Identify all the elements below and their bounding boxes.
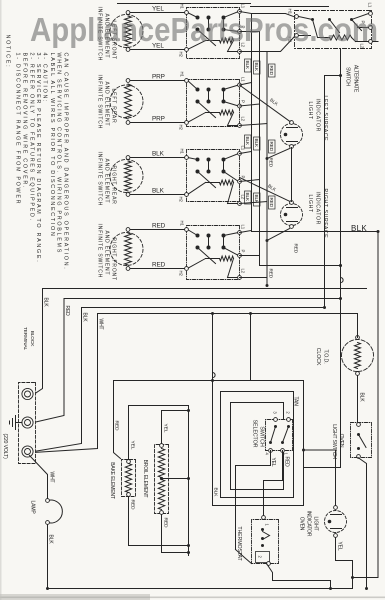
label wire BLK (R1 bottom) xyxy=(213,488,219,498)
wire lamp return xyxy=(46,525,49,591)
wire trunk clock (x313) xyxy=(98,313,358,315)
svg-text:RED: RED xyxy=(269,158,274,168)
label wire BLK diagonal light1 xyxy=(269,97,280,107)
wire bus C (y61) xyxy=(325,74,343,308)
svg-text:CLOCK: CLOCK xyxy=(315,348,321,366)
label OVEN LIGHT SWITCH xyxy=(331,424,344,459)
svg-text:BROIL ELEMENT: BROIL ELEMENT xyxy=(142,460,148,498)
oven light switch box xyxy=(351,423,372,458)
alternate switch terminal P xyxy=(361,21,373,30)
infinite switch S4 box xyxy=(187,226,240,280)
svg-text:WHT: WHT xyxy=(98,319,104,330)
svg-text:BLK: BLK xyxy=(254,139,259,148)
wire WHT rail to terminal xyxy=(34,314,98,453)
svg-text:AND ELEMENT: AND ELEMENT xyxy=(104,82,110,127)
wire left edge upper xyxy=(251,6,329,8)
svg-text:BEFORE REMOVING WIRE COVER.: BEFORE REMOVING WIRE COVER. xyxy=(22,53,28,190)
wire routing rectangle R1 xyxy=(213,381,304,506)
svg-text:LIGHT SWITCH: LIGHT SWITCH xyxy=(331,424,337,459)
surface element E1 burner outline xyxy=(110,15,143,48)
left surface indicator light terminals xyxy=(290,121,294,149)
infinite switch S3 terminal L1 xyxy=(238,146,246,156)
wire H2 S3 to element xyxy=(130,194,185,196)
wire H2 S2 to element xyxy=(130,122,185,124)
svg-text:WHT: WHT xyxy=(49,472,55,483)
svg-text:RED: RED xyxy=(64,306,70,317)
svg-text:RED: RED xyxy=(269,142,274,152)
svg-text:INDICATOR: INDICATOR xyxy=(306,511,312,537)
svg-text:PRP: PRP xyxy=(152,74,165,81)
thermostat terminal 1 xyxy=(262,516,270,527)
svg-text:H2: H2 xyxy=(179,52,184,58)
label LEFT SURFACE INDICATOR LIGHT xyxy=(307,96,328,142)
infinite switch S1 terminal L1 xyxy=(238,4,246,14)
infinite switch S2 contacts xyxy=(188,81,239,126)
svg-text:YEL: YEL xyxy=(163,424,169,433)
svg-text:H1: H1 xyxy=(180,72,185,78)
wire run L2 chain (y118.5) xyxy=(240,52,268,278)
svg-text:RED: RED xyxy=(114,421,120,431)
label wire BLK (lamp) xyxy=(48,535,54,545)
infinite switch S3 terminal P xyxy=(238,176,246,184)
infinite switch S1 contacts xyxy=(188,12,239,52)
label wire BLK xyxy=(245,59,252,72)
bake element terminals xyxy=(127,460,131,497)
svg-text:L2: L2 xyxy=(241,269,246,274)
wire right-edge trunk xyxy=(48,588,353,590)
svg-text:RIGHT SURFACE: RIGHT SURFACE xyxy=(322,189,328,239)
wire thermostat right diagonal xyxy=(267,564,273,581)
svg-text:H2: H2 xyxy=(179,197,184,203)
infinite switch S2 box xyxy=(187,80,240,127)
svg-text:P: P xyxy=(241,100,246,103)
infinite switch S3 box xyxy=(187,150,240,202)
wire bake right xyxy=(129,497,191,548)
wire routing rectangle R2 xyxy=(221,392,294,498)
alternate switch box xyxy=(295,11,372,49)
wire trunk A (x292) xyxy=(43,288,367,290)
svg-text:2- REFER ONLY TO FEATURES EQUI: 2- REFER ONLY TO FEATURES EQUIPPED. xyxy=(29,53,35,222)
label wire RED (bake) xyxy=(130,500,136,510)
wire L1 chain riser to L2 bus xyxy=(252,230,380,233)
infinite switch S4 terminal H2 xyxy=(179,267,189,277)
svg-text:YEL: YEL xyxy=(130,441,136,450)
wire light2 feed diagonal xyxy=(240,178,291,202)
surface element E3 burner outline xyxy=(110,160,143,193)
bake element box xyxy=(122,460,136,497)
svg-text:BLK: BLK xyxy=(245,61,250,70)
svg-text:H1: H1 xyxy=(180,221,185,227)
infinite switch S1 terminal L2 xyxy=(238,43,246,54)
infinite switch S1 terminal H2 xyxy=(179,48,189,58)
svg-text:BLK: BLK xyxy=(351,224,367,233)
wire S1 L1 to alternate H1 xyxy=(252,14,294,17)
terminal block terminal L1 xyxy=(22,388,33,399)
svg-text:L2: L2 xyxy=(241,117,246,122)
label wire YEL (bake) xyxy=(130,441,136,450)
surface element E4 burner outline xyxy=(110,233,143,266)
alternate switch resistor xyxy=(330,35,352,40)
svg-text:TAN: TAN xyxy=(293,397,299,407)
infinite switch S3 contacts xyxy=(188,154,239,204)
svg-text:THERMOSTAT: THERMOSTAT xyxy=(236,526,242,561)
infinite switch S4 terminal H1 xyxy=(180,221,189,232)
svg-text:LEFT SURFACE: LEFT SURFACE xyxy=(322,96,328,142)
label INFINITE SWITCH AND ELEMENT LEFT REAR xyxy=(97,75,117,130)
infinite switch S4 terminal P xyxy=(238,250,246,258)
wire H2 S1 to element xyxy=(130,49,185,51)
label wire YEL (broil) xyxy=(163,424,169,433)
ground symbol xyxy=(10,416,23,430)
infinite switch S3 terminal H1 xyxy=(180,149,189,160)
label wire RED xyxy=(294,244,299,254)
svg-text:INFINITE SWITCH: INFINITE SWITCH xyxy=(97,224,103,279)
svg-text:AND ELEMENT: AND ELEMENT xyxy=(104,159,110,204)
wire bake feeder (y272) xyxy=(114,379,215,459)
wire terminal to lamp xyxy=(30,456,48,500)
wire BLK rail lower xyxy=(34,289,43,395)
label wire RED xyxy=(269,196,276,209)
label LAMP xyxy=(30,501,36,515)
svg-text:BLK: BLK xyxy=(152,188,165,195)
svg-text:CAN CAUSE IMPROPER AND DANGERO: CAN CAUSE IMPROPER AND DANGEROUS OPERATI… xyxy=(63,53,69,271)
svg-text:RED: RED xyxy=(152,262,166,269)
svg-text:SWITCH: SWITCH xyxy=(259,426,265,447)
oven indicator light xyxy=(325,511,347,533)
wire H1 S3 to element xyxy=(130,157,185,159)
svg-text:H2: H2 xyxy=(179,125,184,131)
wire oven indicator left xyxy=(302,449,336,506)
svg-text:LABEL ALL WIRES PRIOR TO DISCO: LABEL ALL WIRES PRIOR TO DISCONNECTION xyxy=(49,53,55,238)
wire left edge segment xyxy=(118,3,251,5)
svg-text:(220 VOLT): (220 VOLT) xyxy=(2,434,8,460)
surface element E2 burner outline xyxy=(110,85,143,118)
lamp xyxy=(48,500,63,523)
label wire BLK xyxy=(254,193,261,206)
infinite switch S4 contacts xyxy=(188,230,239,278)
wire routing rectangle R3 xyxy=(231,403,284,490)
label wire RED (light1 return) xyxy=(269,158,274,168)
wire light2 return diagonal xyxy=(266,229,290,243)
label RIGHT SURFACE INDICATOR LIGHT xyxy=(307,189,328,239)
svg-text:L1: L1 xyxy=(368,3,373,8)
alternate switch terminal L1 xyxy=(368,3,373,16)
alternate switch terminal H2 xyxy=(288,34,299,43)
svg-text:RED: RED xyxy=(130,500,136,510)
svg-text:BLK: BLK xyxy=(245,193,250,202)
infinite switch S4 terminal L1 xyxy=(238,225,246,235)
svg-text:LIGHT: LIGHT xyxy=(307,195,313,214)
right surface indicator light xyxy=(281,204,303,226)
svg-text:RED: RED xyxy=(163,518,169,528)
label wire BLK (rail) xyxy=(43,298,49,308)
label wire BLK (clock) xyxy=(359,393,365,403)
wire between lights xyxy=(291,148,293,202)
alternate switch contacts xyxy=(299,14,369,42)
wire L2 chain to trunk A xyxy=(266,278,269,288)
selector switch contacts xyxy=(269,425,290,444)
wire broil right xyxy=(162,515,191,555)
label wire TAN xyxy=(293,397,299,407)
terminal block box xyxy=(19,383,36,464)
label SELECTOR SWITCH xyxy=(252,420,265,448)
label TERMINAL BLOCK xyxy=(22,327,35,351)
svg-text:T.O.D.: T.O.D. xyxy=(323,349,329,363)
infinite switch S3 terminal H2 xyxy=(179,193,189,203)
label wire RED xyxy=(269,64,276,77)
label wire BLK diagonal light2 xyxy=(267,183,278,193)
surface element E3 resistor xyxy=(125,156,132,197)
svg-text:L1: L1 xyxy=(241,225,246,230)
infinite switch S1 terminal H1 xyxy=(180,4,189,15)
svg-text:BLK: BLK xyxy=(245,137,250,146)
label BROIL ELEMENT xyxy=(142,460,148,498)
terminal block terminal N xyxy=(22,417,33,428)
thermostat terminal 2 xyxy=(258,556,271,566)
svg-text:BLK: BLK xyxy=(254,195,259,204)
right surface indicator light terminals xyxy=(290,201,294,229)
label wire RED xyxy=(269,269,274,279)
label wire BLK xyxy=(245,135,252,148)
svg-text:H1: H1 xyxy=(180,149,185,155)
wire RED rail to terminal xyxy=(34,299,65,423)
alternate switch terminal H1 xyxy=(288,9,299,19)
wire bus B (y45) xyxy=(304,28,370,468)
label wire RED (bake feeder) xyxy=(114,421,120,431)
wire oven indicator right xyxy=(336,538,355,580)
svg-text:BLK: BLK xyxy=(152,151,165,158)
oven light switch terminals xyxy=(357,423,361,459)
scan smudge bottom edge xyxy=(0,594,150,600)
broil element resistors xyxy=(158,449,164,510)
svg-text:SELECTOR: SELECTOR xyxy=(252,420,258,448)
label wire WHT (rail) xyxy=(98,319,104,330)
surface element E4 resistor xyxy=(125,228,132,271)
infinite switch S4 terminal L2 xyxy=(238,269,246,280)
label ALTERNATE SWITCH xyxy=(345,65,359,93)
label INFINITE SWITCH AND ELEMENT RIGHT FRONT xyxy=(97,224,117,281)
svg-text:TERMINAL: TERMINAL xyxy=(22,327,28,351)
label (220 VOLT) xyxy=(2,434,8,460)
broil element box xyxy=(155,445,169,514)
wire oven light switch to right edge xyxy=(358,458,368,591)
svg-text:RED: RED xyxy=(269,198,274,208)
label wire RED (broil) xyxy=(163,518,169,528)
label wire BLK xyxy=(254,61,261,74)
svg-text:BLK: BLK xyxy=(359,393,365,403)
svg-text:L1: L1 xyxy=(241,77,246,82)
svg-text:RIGHT FRONT: RIGHT FRONT xyxy=(111,238,117,281)
oven light switch contacts xyxy=(357,433,366,450)
wire clock to trunk xyxy=(357,314,359,338)
svg-text:OVEN: OVEN xyxy=(338,434,344,448)
wire BLK rail to terminal xyxy=(34,308,82,452)
svg-text:RED: RED xyxy=(269,269,274,279)
wire y197 run xyxy=(188,406,190,556)
svg-text:BLK: BLK xyxy=(43,298,49,308)
wire clock to oven light switch xyxy=(357,376,359,423)
label wire RED (rail) xyxy=(64,306,70,317)
selector switch terminal 2 xyxy=(286,411,291,421)
svg-text:LIGHT: LIGHT xyxy=(313,517,319,531)
svg-text:YEL: YEL xyxy=(337,542,343,551)
svg-text:BLK: BLK xyxy=(213,488,219,498)
svg-text:H1: H1 xyxy=(180,4,185,10)
left surface indicator light xyxy=(281,124,303,146)
wire trunk BLK (x307) xyxy=(82,306,327,309)
thermostat contacts xyxy=(256,528,270,563)
svg-text:LIGHT: LIGHT xyxy=(307,102,313,121)
selector switch terminal 3 xyxy=(273,411,278,421)
label wire YEL (oven light) xyxy=(337,542,343,551)
svg-text:BLK: BLK xyxy=(82,313,88,323)
svg-text:RED: RED xyxy=(269,66,274,76)
svg-text:4- CAUTION:: 4- CAUTION: xyxy=(42,53,48,104)
lamp terminals xyxy=(46,499,50,525)
label INFINITE SWITCH AND ELEMENT LEFT FRONT xyxy=(97,7,117,62)
svg-text:AND ELEMENT: AND ELEMENT xyxy=(104,231,110,276)
svg-text:L1: L1 xyxy=(241,4,246,9)
wire H1 S2 to element xyxy=(130,80,185,82)
svg-text:WHEN SERVICING CONTROLS. WIRIN: WHEN SERVICING CONTROLS. WIRING PROBLEMS xyxy=(56,53,62,254)
wire y135 feeder xyxy=(249,312,252,381)
svg-text:LEFT REAR: LEFT REAR xyxy=(111,89,117,124)
bake element resistor xyxy=(125,464,131,493)
thermostat box xyxy=(252,520,279,564)
label wire YEL (selector) xyxy=(270,458,276,467)
surface element E1 resistor xyxy=(125,11,132,52)
wire selector 4 down xyxy=(236,451,271,466)
broil element terminals xyxy=(160,444,164,515)
svg-text:AppliancePartsPros.com: AppliancePartsPros.com xyxy=(30,11,378,48)
wire thermostat bottom run xyxy=(235,466,237,550)
wire run L1 chain (y134) xyxy=(240,12,252,233)
surface element E2 resistor xyxy=(125,79,132,125)
wire H1 S4 to element xyxy=(130,229,185,231)
oven indicator light terminals xyxy=(334,506,338,538)
label wire WHT (lamp) xyxy=(49,472,55,483)
infinite switch S2 terminal L2 xyxy=(238,117,246,128)
svg-text:BLK: BLK xyxy=(254,63,259,72)
svg-text:LAMP: LAMP xyxy=(30,501,36,515)
svg-text:INFINITE SWITCH: INFINITE SWITCH xyxy=(97,152,103,207)
svg-text:RED: RED xyxy=(294,244,299,254)
svg-text:P: P xyxy=(241,250,246,253)
label wire RED (selector) xyxy=(284,457,290,468)
wire S1 L2 to alternate H2 xyxy=(267,37,295,52)
wire H2 S4 to element xyxy=(130,268,185,270)
infinite switch S3 terminal L2 xyxy=(238,195,246,206)
wire y173 feeder xyxy=(211,312,215,381)
svg-text:SWITCH: SWITCH xyxy=(345,67,351,86)
svg-text:BAKE ELEMENT: BAKE ELEMENT xyxy=(109,462,115,499)
svg-text:1- DISCONNECT RANGE FROM POWER: 1- DISCONNECT RANGE FROM POWER xyxy=(15,53,21,206)
wire P chain riser to bus B xyxy=(260,256,343,268)
wire x580 riser xyxy=(273,581,333,591)
infinite switch S2 terminal P xyxy=(238,100,246,108)
svg-text:PRP: PRP xyxy=(152,116,165,123)
svg-text:BLK: BLK xyxy=(48,535,54,545)
infinite switch S1 box xyxy=(187,8,240,59)
wire run P chain (y126) xyxy=(240,32,260,256)
svg-text:NOTICE:: NOTICE: xyxy=(5,35,11,69)
svg-text:RED: RED xyxy=(152,223,166,230)
selector switch box xyxy=(266,420,293,451)
infinite switch S1 terminal P xyxy=(238,26,246,34)
svg-text:RIGHT REAR: RIGHT REAR xyxy=(111,166,117,205)
wire light1 feed diagonal xyxy=(240,85,291,122)
svg-text:OVEN: OVEN xyxy=(299,517,305,531)
svg-text:BLOCK: BLOCK xyxy=(29,331,35,347)
wire light1 return diagonal xyxy=(266,149,290,161)
label THERMOSTAT xyxy=(236,526,242,561)
infinite switch S2 terminal H2 xyxy=(179,121,189,131)
svg-text:INFINITE SWITCH: INFINITE SWITCH xyxy=(97,75,103,130)
wire trunk RED (x300) xyxy=(64,297,342,300)
selector switch terminal 1 xyxy=(281,449,289,456)
svg-text:H2: H2 xyxy=(179,271,184,277)
wire H1 S1 to element xyxy=(130,12,185,14)
wire thermostat left bend xyxy=(236,550,252,564)
label wire RED xyxy=(269,140,276,153)
T.O.D. clock terminals xyxy=(356,336,360,376)
wire selector 1 to thermostat xyxy=(264,451,283,516)
svg-text:RED: RED xyxy=(284,457,290,468)
svg-text:INDICATOR: INDICATOR xyxy=(315,192,321,225)
alternate switch terminal L2 xyxy=(360,40,373,49)
infinite switch S2 terminal H1 xyxy=(180,72,189,83)
label wire BLK xyxy=(245,191,252,204)
label NOTICE block xyxy=(5,35,69,271)
wire L2 bus (top) xyxy=(353,42,379,589)
scan edge line left xyxy=(0,0,2,600)
T.O.D. clock xyxy=(342,340,374,372)
wire broil left riser xyxy=(162,409,191,444)
label T.O.D. CLOCK xyxy=(315,348,329,366)
label wire BLK xyxy=(254,137,261,150)
svg-text:3- SERVICER PLEASE RETURN DIAG: 3- SERVICER PLEASE RETURN DIAGRAM TO RAN… xyxy=(35,53,41,264)
label BAKE ELEMENT xyxy=(109,462,115,499)
label wire BLK (rail2) xyxy=(82,313,88,323)
infinite switch S2 terminal L1 xyxy=(238,77,246,87)
wire broil mid branch xyxy=(164,477,191,480)
label OVEN INDICATOR LIGHT xyxy=(299,511,319,537)
svg-text:ALTERNATE: ALTERNATE xyxy=(353,65,359,93)
wire bake left riser xyxy=(129,406,189,460)
svg-text:YEL: YEL xyxy=(270,458,276,467)
terminal block terminal L2 xyxy=(22,446,33,457)
label INFINITE SWITCH AND ELEMENT RIGHT REAR xyxy=(97,152,117,207)
svg-text:INDICATOR: INDICATOR xyxy=(315,99,321,132)
selector switch terminal 4 xyxy=(265,449,273,456)
